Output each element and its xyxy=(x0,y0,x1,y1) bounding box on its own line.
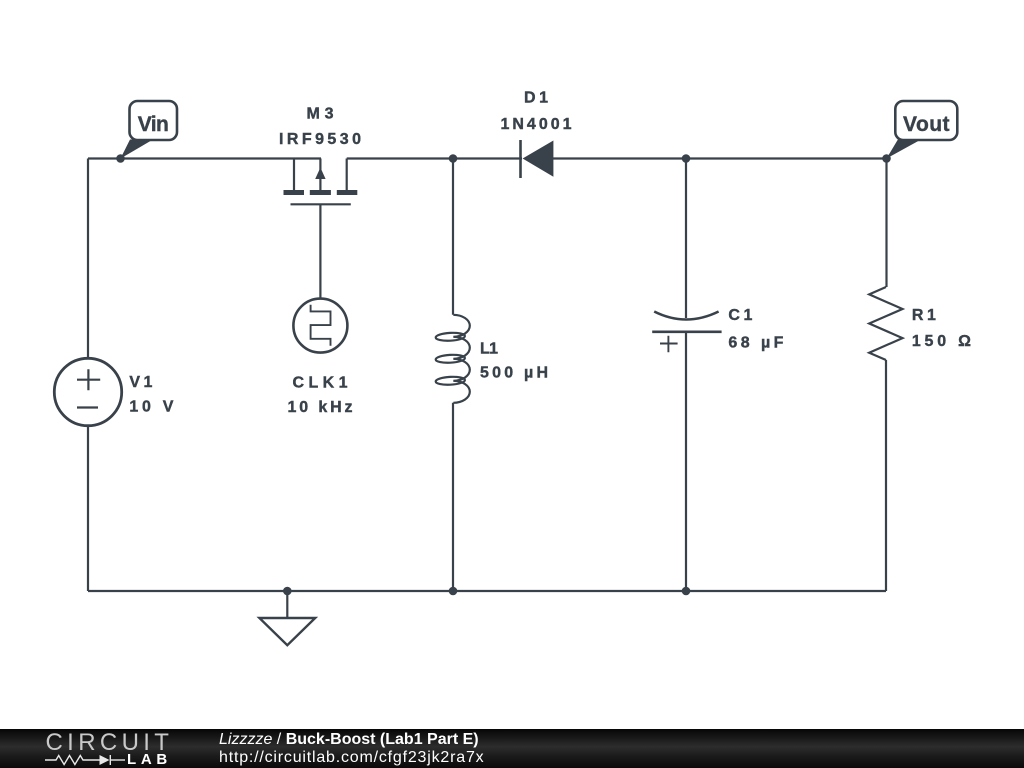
svg-text:D1: D1 xyxy=(524,90,548,107)
svg-text:Vin: Vin xyxy=(138,113,169,136)
svg-text:R1: R1 xyxy=(912,307,936,324)
svg-text:C1: C1 xyxy=(728,307,752,324)
svg-text:CLK1: CLK1 xyxy=(293,374,348,391)
svg-text:V1: V1 xyxy=(129,374,152,391)
svg-text:10 kHz: 10 kHz xyxy=(288,399,353,416)
svg-text:68 µF: 68 µF xyxy=(728,334,783,351)
svg-text:1N4001: 1N4001 xyxy=(501,116,572,133)
svg-text:150 Ω: 150 Ω xyxy=(912,333,971,350)
svg-text:M3: M3 xyxy=(307,106,334,123)
svg-text:L1: L1 xyxy=(480,341,498,358)
svg-text:IRF9530: IRF9530 xyxy=(279,131,361,148)
svg-text:500 µH: 500 µH xyxy=(480,365,548,382)
svg-text:Vout: Vout xyxy=(903,113,950,136)
svg-text:10 V: 10 V xyxy=(129,399,173,416)
